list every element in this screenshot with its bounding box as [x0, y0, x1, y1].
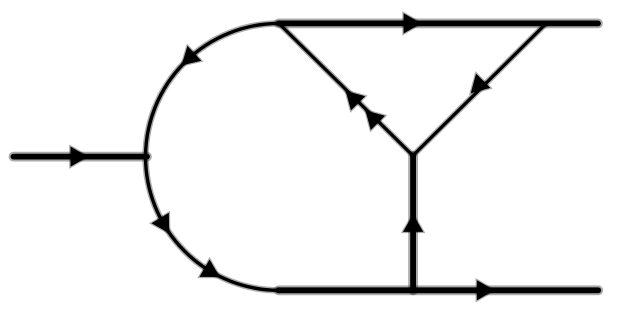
arrow on upper arc (points down-left toward node L): [182, 46, 201, 65]
wire: left diagonal propagator from vertex A down to vertex D: [279, 23, 413, 155]
arrow on bottom line (points right, outgoing): [477, 280, 494, 300]
arrow 2 on lower arc (points down-right toward node B): [200, 260, 220, 277]
arrow on top line (points right, midway between A and C): [404, 13, 421, 33]
wire: semicircular loop propagator (top vertex A through left node L to bottom node B): [146, 23, 279, 290]
arrow 1 on left diagonal (double arrow, points up-left toward A): [346, 91, 365, 110]
wire: right diagonal propagator from vertex C down to vertex D: [413, 23, 546, 155]
arrow 1 on lower arc (points down-right toward node B): [152, 213, 170, 233]
wire: top horizontal line from vertex A through vertex C to right edge: [279, 18, 598, 28]
arrow 2 on left diagonal (double arrow, points up-left toward A): [366, 111, 385, 130]
arrow on incoming left line (points right): [71, 147, 88, 167]
wire: vertical propagator from vertex D down to bottom node B2: [408, 156, 418, 291]
wire: bottom horizontal line from node B through node B2 to right edge: [279, 285, 599, 295]
arrow on right diagonal (points down-left toward D): [471, 74, 490, 93]
arrow on vertical line (points up toward D): [403, 215, 423, 232]
wire: incoming external fermion line (left): [14, 152, 148, 162]
